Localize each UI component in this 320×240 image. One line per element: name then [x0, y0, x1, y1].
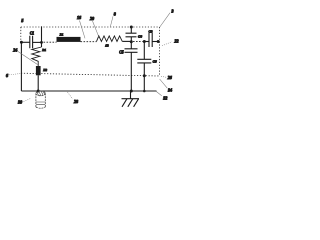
wire dashed rail segment to L1 [44, 41, 57, 43]
microphone capsule 30 [36, 91, 45, 108]
bottom bus wire [21, 90, 156, 92]
wire C1 to node [33, 41, 42, 43]
wire shield to C4 [130, 27, 132, 33]
shield box right edge [159, 27, 161, 76]
leader 24 [18, 51, 38, 64]
svg-text:20: 20 [90, 16, 94, 21]
svg-text:12: 12 [105, 44, 109, 48]
wire R2 to node [122, 40, 131, 42]
svg-text:C6: C6 [153, 60, 157, 64]
wire rail to C5 [130, 42, 132, 49]
svg-text:22: 22 [175, 39, 179, 44]
svg-text:34: 34 [168, 88, 172, 93]
wire L2 to bottom bus [37, 75, 39, 91]
svg-text:30: 30 [18, 100, 22, 105]
svg-text:L1: L1 [59, 33, 64, 37]
wire dashed rail segment right of node [133, 41, 143, 43]
node C6 bus junction [143, 90, 146, 93]
inductor L2 (solid bar) [36, 66, 41, 75]
node rail / left wire [20, 41, 23, 44]
wire L1 to R2 [81, 41, 97, 43]
svg-text:C1: C1 [30, 32, 34, 36]
svg-text:L2: L2 [42, 68, 47, 72]
svg-text:R1: R1 [41, 48, 46, 52]
svg-text:C5: C5 [119, 50, 123, 54]
svg-text:24: 24 [13, 47, 17, 52]
node C5 bus junction [130, 90, 133, 93]
wire left vertical branch [20, 42, 22, 91]
leader 32 [156, 92, 162, 96]
wire node to C6 [143, 42, 145, 60]
wire C6 down [143, 63, 145, 91]
leader 16 [80, 21, 86, 39]
leader 34 [160, 79, 168, 88]
capacitor C5 [125, 49, 138, 53]
svg-text:C2: C2 [149, 29, 153, 33]
shield box bottom edge [21, 73, 160, 76]
wire node to C2 [144, 41, 149, 43]
leader 8 [110, 16, 113, 26]
node mic junction [37, 90, 40, 93]
leader 3 [160, 13, 170, 27]
leader 30 dashed [24, 99, 31, 102]
node on shield bottom edge [143, 74, 146, 77]
shield box left edge [20, 27, 22, 42]
leader 28 dashed [68, 92, 73, 99]
node rail / C4 chain [130, 40, 133, 43]
node on shield right edge [157, 40, 160, 43]
capacitor C4 [126, 33, 137, 37]
leader 6 dashed [9, 74, 21, 75]
ground [122, 91, 140, 107]
wire C2 to shield wall [152, 41, 159, 43]
shield box top edge left run [21, 26, 40, 28]
wire rail to C1 [21, 41, 29, 43]
leader 22 dashed [162, 42, 172, 46]
node on shield top edge [130, 26, 133, 29]
wire left chain top stub [41, 26, 43, 47]
wire C5 to bottom bus [130, 52, 132, 91]
inductor L1 (solid bar) [57, 37, 81, 42]
svg-text:26: 26 [168, 75, 172, 80]
capacitor C1 [30, 36, 33, 49]
shield box top edge right run [43, 26, 159, 28]
svg-text:3: 3 [172, 9, 174, 14]
node on left chain [40, 41, 43, 44]
capacitor C2 [149, 33, 152, 47]
svg-text:5: 5 [21, 18, 23, 23]
capacitor C6 [137, 59, 151, 63]
svg-text:6: 6 [6, 73, 8, 78]
resistor R2 (zigzag) [97, 36, 123, 42]
svg-text:32: 32 [163, 95, 167, 100]
wire C4 to rail [130, 37, 132, 42]
svg-text:C4: C4 [138, 35, 142, 39]
leader 20 [93, 21, 99, 37]
leader 26 dashed [161, 76, 167, 77]
resistor R1 (vertical zigzag) [32, 47, 42, 66]
svg-text:8: 8 [114, 12, 116, 17]
svg-text:28: 28 [74, 99, 78, 104]
node rail / C6 chain [143, 40, 146, 43]
svg-text:16: 16 [77, 15, 81, 20]
